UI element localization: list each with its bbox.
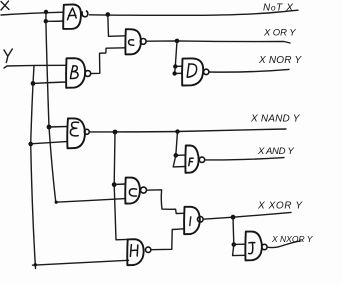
node E top input junction <box>47 125 52 130</box>
node X-G corner <box>55 201 58 204</box>
wire I output / X XOR Y line <box>203 212 291 219</box>
wire E branch vertical to G and H <box>114 132 127 240</box>
pin label I stroke <box>190 217 191 226</box>
svg-text:X XOR Y: X XOR Y <box>257 201 303 212</box>
node X-A junction <box>44 10 48 14</box>
wire J lower input <box>233 245 246 256</box>
wire Y branch to B lower input <box>33 66 66 84</box>
wire D lower input <box>175 67 182 74</box>
node J top input <box>232 242 237 247</box>
wire X NOR Y line <box>209 69 289 72</box>
op gate C (NAND) <box>125 29 141 54</box>
op gate I (NAND) <box>184 207 200 234</box>
wire G top input <box>114 183 125 186</box>
wire Y vertical bus <box>31 83 36 268</box>
node bottom corner <box>34 263 37 266</box>
wire C output / X OR Y line <box>146 41 290 43</box>
wire NOT X output line <box>90 10 299 15</box>
node E output branch 2 <box>175 129 179 133</box>
wire I to J inputs vertical <box>233 217 245 244</box>
wire H output staircase to I <box>151 229 184 250</box>
input label X <box>1 1 9 10</box>
wire G output staircase to I <box>147 190 185 214</box>
bubble H <box>146 247 151 252</box>
node D top input <box>173 64 177 68</box>
input label Y <box>4 49 12 63</box>
bubble C <box>140 39 146 45</box>
wire X NXOR Y output line <box>267 241 301 248</box>
bubble F <box>199 157 204 162</box>
wire X bus to G lower input <box>56 199 126 203</box>
bubble A <box>82 11 88 17</box>
op gate E (NAND) <box>67 118 85 148</box>
wire E branch to F inputs <box>176 132 186 156</box>
wire E top input <box>49 126 67 129</box>
op gate J (NAND) <box>245 232 262 261</box>
bubble G <box>141 187 147 193</box>
svg-text:X OR Y: X OR Y <box>263 28 296 39</box>
wire bottom Y line to H <box>33 260 129 265</box>
bubble E <box>84 129 89 134</box>
svg-text:X NOR Y: X NOR Y <box>258 55 302 66</box>
node I output branch <box>231 215 236 220</box>
node G top input <box>112 182 117 187</box>
svg-text:X NAND Y: X NAND Y <box>250 114 301 125</box>
node D lower input <box>172 71 176 75</box>
wire E lower input <box>31 142 67 144</box>
svg-text:X NXOR Y: X NXOR Y <box>271 234 314 244</box>
wire A lower input <box>46 12 64 21</box>
bubble J <box>262 244 267 249</box>
bubble D <box>204 69 209 74</box>
wire E output / X NAND Y line <box>89 129 286 132</box>
wire F lower input <box>173 155 185 167</box>
op gate F (NAND) <box>185 146 198 173</box>
svg-text:NoT X: NoT X <box>263 3 294 14</box>
node F top input <box>174 153 179 158</box>
node Y-B junction <box>31 81 36 86</box>
node X-A lower junction <box>44 19 48 23</box>
node C-D branch <box>175 39 180 44</box>
op gate B (NAND) <box>66 58 85 88</box>
wire C to D inputs vertical <box>175 41 182 66</box>
node E output branch 1 <box>113 130 118 135</box>
wire X input line <box>1 12 64 15</box>
wire C top input <box>108 15 126 36</box>
node NOT-X / C branch <box>106 12 111 17</box>
bubble B <box>85 71 91 77</box>
wire F output / X AND Y line <box>205 158 284 160</box>
op gate H (NAND) <box>127 239 143 265</box>
bubble I <box>198 217 204 223</box>
wire Y input line <box>4 65 66 68</box>
op gate A (NAND) <box>63 4 81 29</box>
op gate D (NAND) <box>182 58 203 85</box>
wire X vertical bus <box>46 21 56 202</box>
svg-text:X AND Y: X AND Y <box>257 146 294 157</box>
op gate G (NAND) <box>125 178 140 204</box>
node E lower input junction <box>28 142 33 147</box>
wire B output staircase to C <box>91 48 126 74</box>
